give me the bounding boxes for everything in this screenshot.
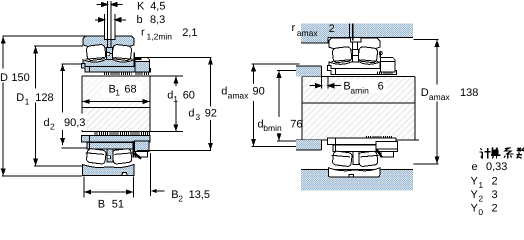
svg-text:amin: amin — [350, 85, 369, 95]
washer bottom edge lower — [381, 152, 393, 157]
label Bamin 6 — [342, 80, 387, 94]
washer tab lower black diagonal — [376, 149, 381, 157]
roller row 2 lower (white) — [112, 148, 132, 164]
svg-text:60: 60 — [183, 90, 195, 102]
svg-text:Y: Y — [471, 189, 479, 201]
hatched shaft area in bore — [83, 76, 150, 107]
white box behind B1 label — [103, 82, 142, 98]
roller row 1 upper (white) — [86, 44, 106, 61]
svg-text:amax: amax — [228, 90, 250, 100]
svg-text:2,1: 2,1 — [182, 27, 197, 39]
svg-text:2: 2 — [50, 122, 55, 132]
svg-text:76: 76 — [290, 118, 302, 130]
dimension b: extension lines — [105, 14, 115, 36]
label damax 90 — [220, 85, 267, 100]
sleeve thread serration lower — [95, 132, 151, 135]
svg-text:amax: amax — [429, 92, 451, 102]
char shu (factor), right part cut by image edge — [517, 148, 524, 159]
svg-text:138: 138 — [460, 87, 478, 99]
svg-text:B: B — [98, 198, 105, 210]
housing top band (blue) — [301, 23, 413, 37]
locating slot lower — [349, 175, 353, 177]
svg-text:68: 68 — [124, 83, 136, 95]
svg-text:d: d — [188, 107, 194, 119]
bore line upper / d1 top extension — [82, 75, 183, 77]
dimension K: extension lines above bearing — [108, 1, 111, 40]
washer bottom edge lower — [135, 152, 147, 157]
dimension B2 extension line — [149, 153, 151, 196]
svg-text:2: 2 — [492, 175, 498, 187]
cage guide lower white — [353, 152, 359, 165]
dimension d2 extension lines — [62, 64, 88, 148]
extension lines above right bearing — [349, 24, 352, 41]
dimension B1 line with arrows — [82, 101, 150, 103]
cage rail lines upper right — [332, 60, 379, 62]
nut upper white — [380, 58, 395, 73]
label d3 92 (white box over line) — [187, 107, 220, 120]
cage guide ring lower (blue) — [107, 149, 113, 162]
svg-text:0,33: 0,33 — [486, 161, 507, 173]
svg-text:0: 0 — [478, 207, 483, 217]
svg-text:90: 90 — [253, 86, 265, 98]
dimension B2 arrow — [157, 190, 165, 192]
inner ring lower band B (blue) — [87, 143, 134, 149]
roller row 2 upper white — [358, 46, 378, 63]
svg-text:D: D — [0, 72, 8, 84]
svg-text:K: K — [137, 0, 145, 12]
svg-text:bmin: bmin — [263, 123, 282, 133]
label Damax 138 — [420, 85, 480, 101]
svg-text:1: 1 — [115, 87, 120, 97]
svg-text:8,3: 8,3 — [150, 14, 165, 26]
serration lower — [366, 136, 392, 139]
housing shoulder top (blue) — [301, 37, 328, 42]
dimension D arrows — [1, 36, 6, 176]
inner ring lower white band B — [333, 145, 380, 151]
svg-text:D: D — [421, 87, 429, 99]
svg-text:3: 3 — [195, 112, 200, 122]
housing bottom band (blue) — [301, 170, 413, 191]
svg-text:3: 3 — [492, 189, 498, 201]
roller row 1 lower (white) — [86, 148, 106, 164]
svg-text:d: d — [44, 117, 50, 129]
dimension d3 extension lines — [137, 57, 212, 150]
central bore area (white rect with borders) — [81, 76, 83, 132]
cage rail lines lower — [86, 153, 133, 155]
dimension D1 arrows — [33, 46, 38, 165]
dimension Bamin arrows — [310, 84, 342, 88]
dimension d2 arrows — [60, 64, 65, 145]
sleeve upper white — [328, 66, 397, 75]
svg-text:r: r — [292, 22, 296, 34]
label d1 60 (white box over line) — [167, 87, 199, 100]
dimension damax vertical line — [253, 64, 255, 146]
dimension damax extension lines — [252, 64, 300, 146]
inner ring upper white — [329, 62, 380, 69]
shaft shoulder top (blue) — [296, 66, 321, 76]
washer tab upper black hook — [379, 53, 381, 58]
dimension B extension lines — [84, 177, 134, 198]
svg-text:150: 150 — [11, 72, 29, 84]
outer ring upper white — [329, 38, 380, 50]
svg-text:4,5: 4,5 — [150, 0, 165, 12]
svg-text:1: 1 — [173, 94, 178, 104]
dimension B line with arrows — [84, 191, 134, 193]
dimension K arrows — [97, 2, 123, 6]
svg-text:r: r — [141, 26, 145, 38]
svg-text:1,2min: 1,2min — [147, 31, 173, 41]
char ji (calculate) — [480, 148, 491, 159]
svg-text:51: 51 — [112, 198, 124, 210]
right bearing upper half (white outline copy) — [328, 38, 397, 74]
cage rail lines lower right — [332, 155, 379, 157]
char suan — [491, 148, 501, 159]
dimension Damax top extension — [414, 38, 439, 40]
sleeve step line upper — [89, 66, 91, 72]
outer ring upper (blue section) — [83, 36, 134, 48]
serration upper — [377, 72, 394, 75]
svg-text:d: d — [221, 86, 227, 98]
dimension D extension lines — [2, 36, 85, 176]
shaft shoulder bottom (blue) — [296, 140, 321, 150]
cage guide white — [353, 50, 359, 62]
dimension b arrows — [95, 18, 126, 22]
adapter sleeve lower band A (blue) — [82, 136, 151, 142]
roller row 1 upper white — [332, 46, 352, 63]
dimension d3 vertical line — [210, 57, 212, 150]
svg-text:128: 128 — [35, 92, 53, 104]
label d2 90,3 — [42, 114, 87, 131]
svg-text:amax: amax — [297, 28, 319, 38]
roller row 2 lower white — [358, 151, 378, 167]
svg-text:2: 2 — [329, 23, 335, 35]
sleeve thread serration upper — [104, 72, 132, 75]
dimension Damax vertical line — [436, 39, 438, 163]
shaft (hatched) — [303, 77, 415, 140]
roller row 2 upper (white) — [112, 44, 132, 61]
svg-text:1: 1 — [25, 96, 30, 106]
svg-text:2: 2 — [478, 194, 483, 204]
svg-text:90,3: 90,3 — [64, 117, 85, 129]
svg-text:6: 6 — [378, 81, 384, 93]
char xi (system) — [504, 148, 513, 159]
svg-text:92: 92 — [205, 107, 217, 119]
dimension D: vertical line — [2, 36, 4, 176]
roller row 1 lower white — [332, 151, 352, 167]
adapter sleeve upper (blue) — [82, 63, 151, 72]
lock washer tab lower (black diagonal) — [135, 153, 142, 158]
right bearing lower half (white outline copy) — [328, 138, 398, 177]
outer ring lower (blue) — [82, 165, 133, 176]
outer ring lower white — [328, 168, 379, 177]
dimension D1 extension lines — [34, 46, 83, 166]
housing top outline — [301, 37, 413, 43]
label dbmin 76 — [256, 117, 304, 132]
lock nut upper (blue with white washer band) — [135, 58, 150, 73]
lock nut lower (blue) — [135, 141, 150, 152]
lock washer plate lower (black strip) — [133, 141, 135, 157]
dimension Bamin extension lines — [322, 76, 328, 88]
svg-text:13,5: 13,5 — [189, 189, 210, 201]
cage guide ring upper (blue) — [107, 47, 113, 59]
svg-text:D: D — [16, 92, 24, 104]
locating slot notch in outer ring lower — [122, 172, 127, 175]
bore line lower / d1 bottom extension — [82, 131, 183, 133]
dimension dbmin extension lines — [277, 70, 322, 140]
lock washer tab upper (black L) — [133, 53, 141, 60]
dimension D1: vertical line — [35, 46, 37, 165]
svg-text:2: 2 — [492, 203, 498, 215]
sleeve lower white band A — [328, 138, 397, 144]
svg-text:e: e — [472, 161, 478, 173]
dimension d1 vertical line — [175, 76, 177, 132]
svg-text:b: b — [137, 14, 143, 26]
sleeve step line lower — [89, 136, 91, 149]
nut lower white — [376, 142, 397, 152]
housing bottom bore line — [301, 169, 413, 171]
label (chinese) calculation factors — [480, 148, 524, 159]
shaft outline — [296, 76, 419, 140]
svg-text:2: 2 — [178, 194, 183, 204]
lubrication hole lines in outer ring — [107, 40, 109, 48]
dimension dbmin vertical line — [278, 70, 280, 140]
dimension d2: vertical line — [62, 64, 64, 145]
cage rail lines upper — [86, 58, 133, 60]
svg-text:1: 1 — [478, 180, 483, 190]
svg-text:Y: Y — [471, 175, 479, 187]
svg-text:Y: Y — [471, 203, 479, 215]
inner ring upper (blue) — [83, 60, 134, 67]
dimension Damax bottom extension — [414, 163, 439, 165]
